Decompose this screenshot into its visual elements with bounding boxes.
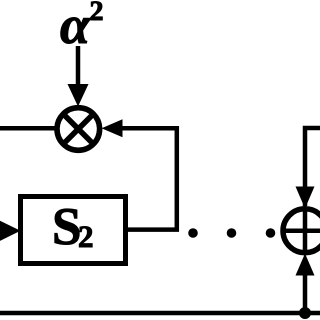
arrowhead up into adder bottom [296,254,315,276]
arrowhead: input into S2 [0,220,21,242]
wire: from bottom bus up into adder [303,260,308,314]
register label subscript 2 [79,226,92,247]
adder horizontal bar / output wire to right edge [283,229,320,234]
multiplier cross [65,116,91,142]
wire: vertical bar through adder [303,208,308,252]
arrowhead into multiplier right [102,119,123,137]
register S2 box [21,197,126,264]
ellipsis dot 2 [227,228,237,238]
bottom bus wire [0,311,320,316]
wire: left input into multiplier [0,126,55,131]
coefficient label alpha^2 [61,18,91,44]
exponent 2 of alpha [91,1,103,20]
adder circle [283,209,320,253]
register label S [55,209,79,245]
multiplier circle [57,108,100,151]
wire: arrow from alpha^2 down into multiplier [76,46,81,86]
ellipsis dot 3 [266,228,276,238]
wire: feedback from S2 output up and left into multiplier [122,128,177,229]
junction dot [299,307,311,319]
arrowhead down into adder top [296,187,315,209]
ellipsis dot 1 [188,228,198,238]
wire: top feedback from right edge into adder [305,128,320,206]
